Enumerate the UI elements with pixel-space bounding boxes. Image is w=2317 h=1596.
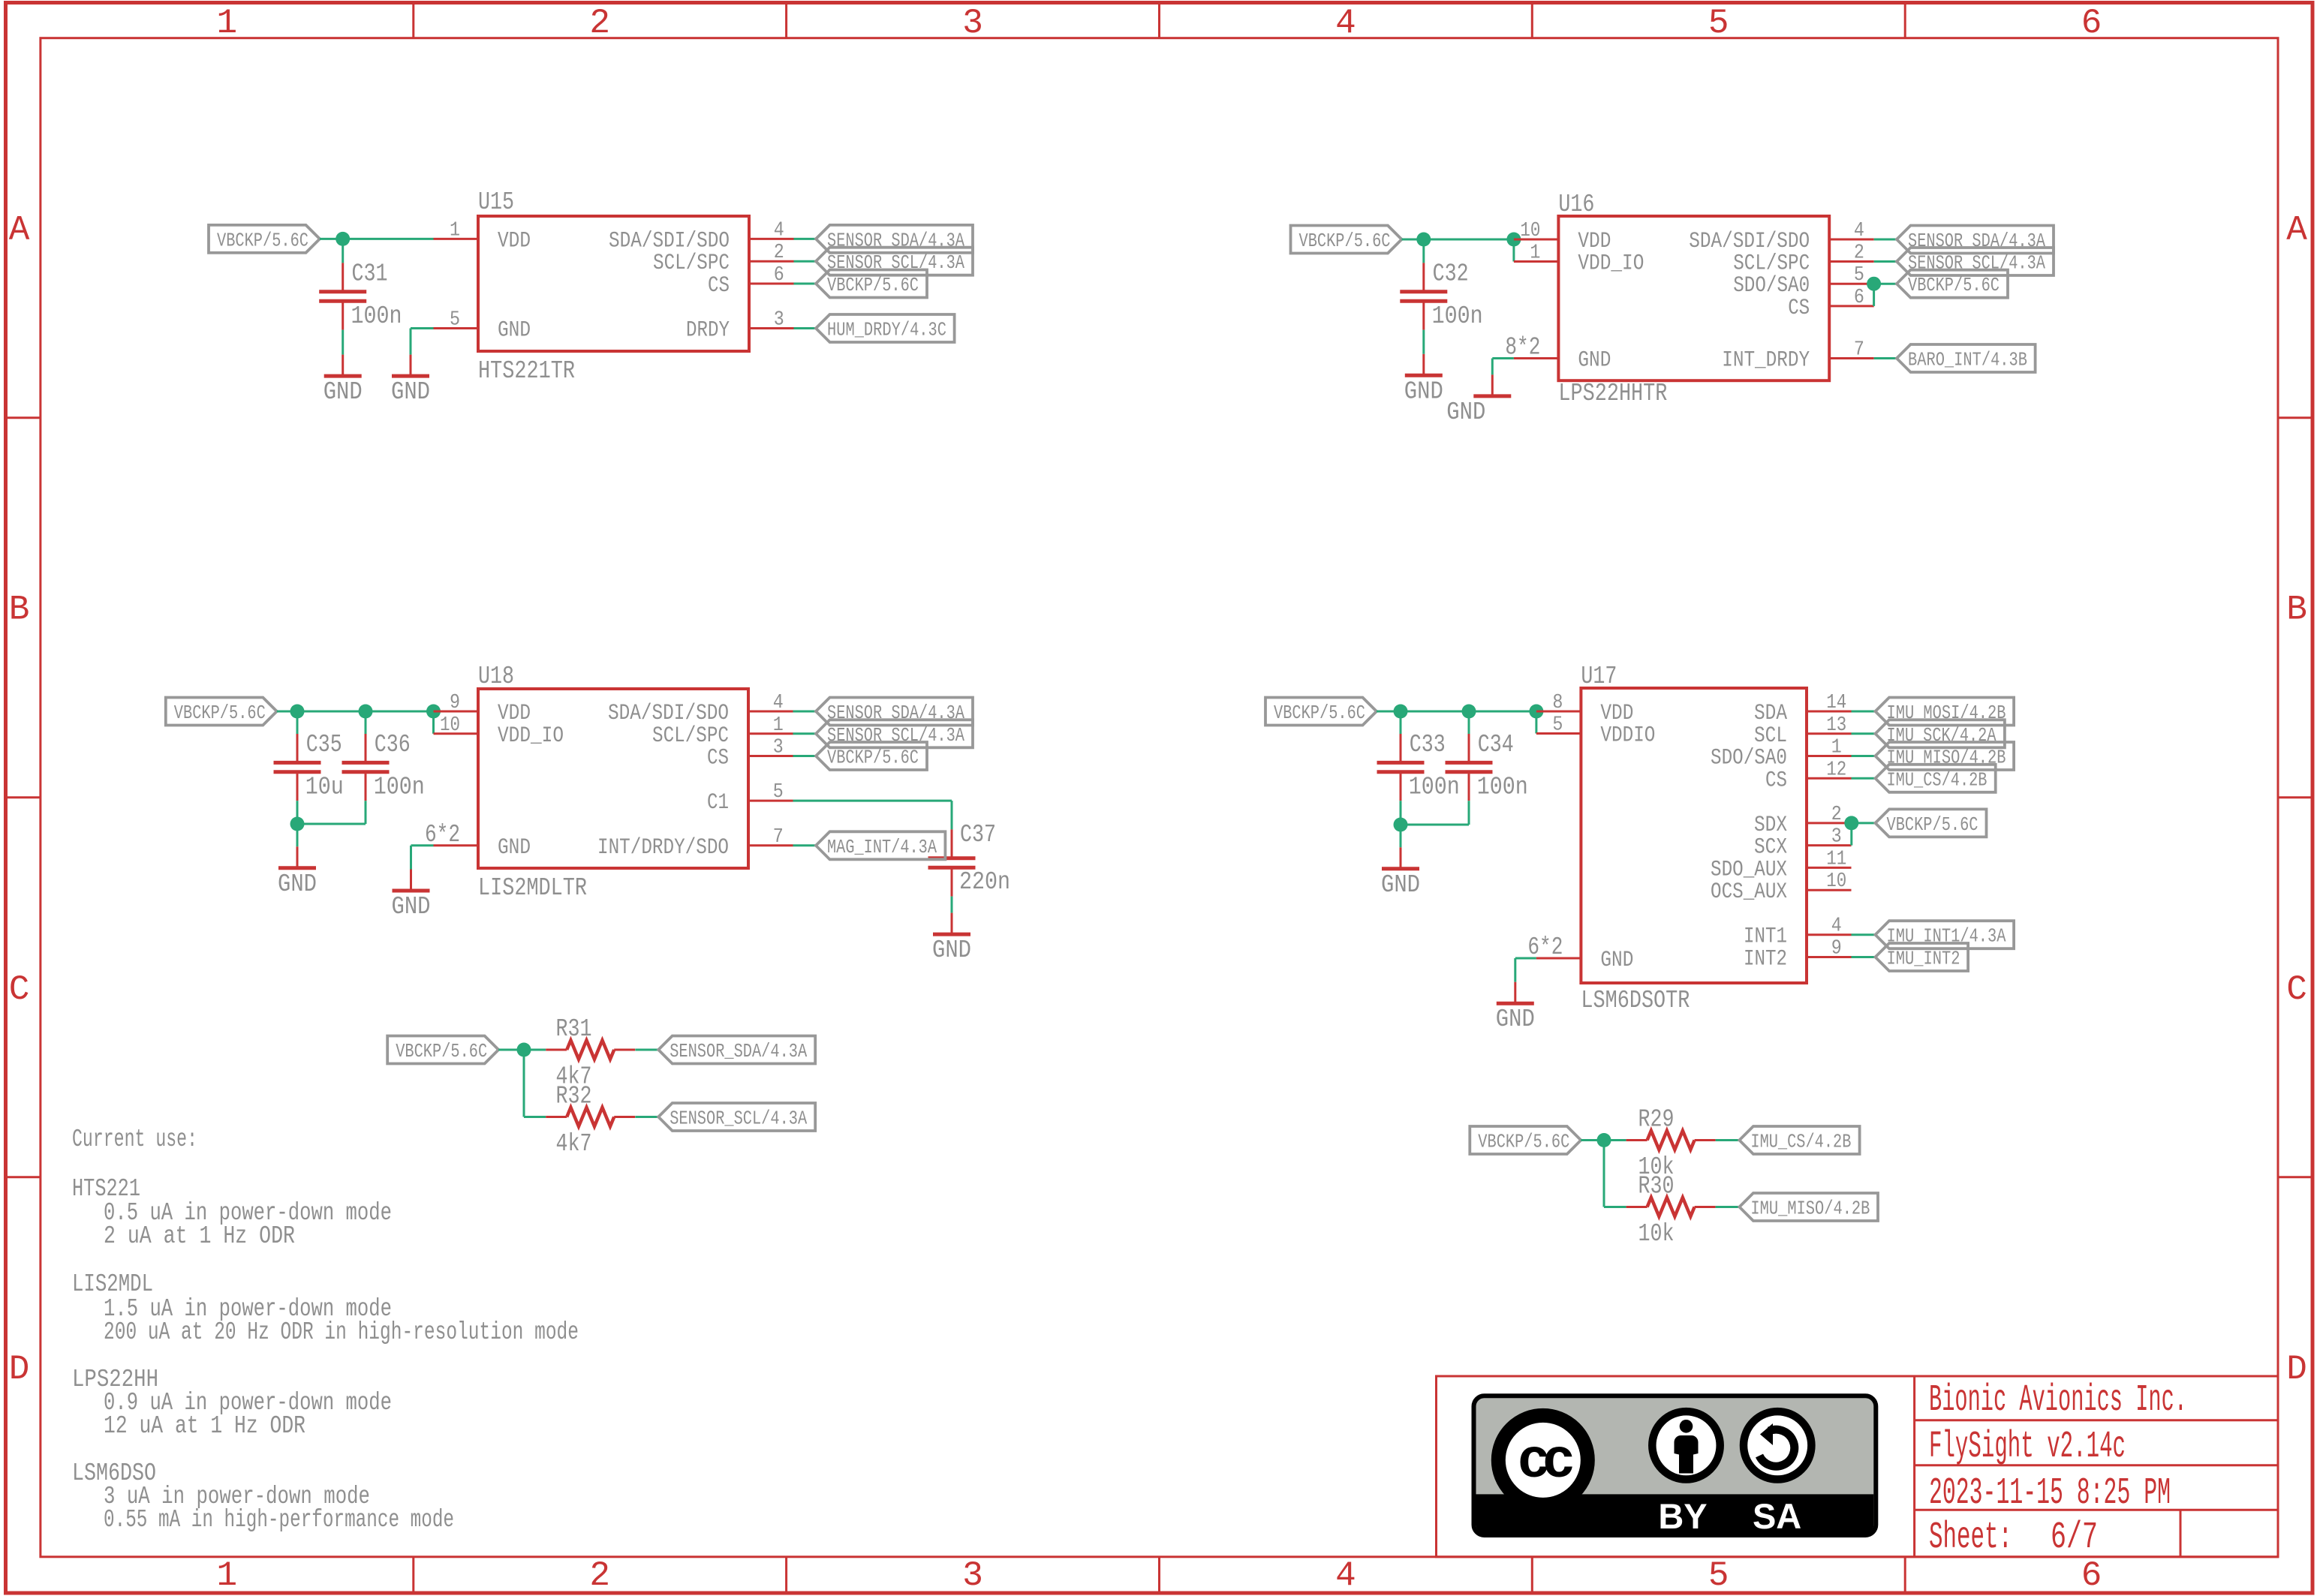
svg-text:10u: 10u: [305, 774, 344, 801]
net label IMU_INT1/4.3A: [1876, 921, 2015, 948]
net label IMU_MOSI/4.2B: [1876, 698, 2015, 726]
row tick left: [4, 1176, 41, 1178]
junction node VDD/VDD_IO branch U18: [426, 705, 441, 719]
svg-text:2023-11-15 8:25 PM: 2023-11-15 8:25 PM: [1929, 1472, 2171, 1515]
svg-text:CS: CS: [1765, 768, 1787, 793]
title block outline: [1437, 1376, 2279, 1557]
wire: [296, 801, 299, 824]
net label VBCKP/5.6C: [1265, 698, 1377, 726]
wire: [1852, 933, 1876, 936]
ground (C35/C36): [278, 846, 317, 898]
pin 3 of U17: [1807, 826, 1852, 849]
svg-text:D: D: [2286, 1350, 2307, 1389]
capacitor C34 (100n): [1446, 734, 1493, 801]
pin GND of U16: [1514, 357, 1558, 359]
wire: [793, 844, 817, 846]
wire: [794, 283, 817, 285]
pin 5 of U16: [1829, 264, 1874, 287]
svg-text:5: 5: [773, 781, 784, 804]
pin 5 of U18: [748, 781, 793, 804]
pin 9 of U18: [434, 692, 479, 714]
svg-text:C1: C1: [707, 790, 729, 816]
wire: [1874, 239, 1897, 241]
wire: [635, 1049, 658, 1051]
svg-text:LPS22HHTR: LPS22HHTR: [1558, 380, 1667, 407]
svg-text:VBCKP/5.6C: VBCKP/5.6C: [1299, 230, 1391, 252]
pin 4 of U15: [749, 219, 794, 242]
column tick bottom: [1158, 1557, 1160, 1591]
wire: [1377, 711, 1536, 713]
svg-text:12: 12: [1826, 759, 1846, 781]
column tick top: [1531, 4, 1533, 38]
svg-text:10: 10: [1520, 220, 1540, 242]
svg-text:6*2: 6*2: [1527, 933, 1563, 961]
svg-text:SENSOR_SCL/4.3A: SENSOR_SCL/4.3A: [670, 1108, 807, 1130]
junction node C33/C34 ground: [1394, 818, 1408, 832]
svg-text:6: 6: [2081, 4, 2102, 43]
svg-text:220n: 220n: [959, 868, 1010, 896]
svg-text:10k: 10k: [1638, 1220, 1675, 1248]
row tick right: [2278, 416, 2312, 419]
net label MAG_INT/4.3A: [816, 831, 945, 859]
svg-text:CS: CS: [708, 273, 730, 299]
pin 3 of U15: [749, 309, 794, 332]
svg-text:100n: 100n: [1409, 774, 1460, 801]
net label SENSOR_SDA/4.3A: [816, 225, 973, 253]
wire: [411, 844, 434, 846]
svg-text:VDD_IO: VDD_IO: [498, 723, 564, 749]
wire: [432, 711, 435, 734]
wire: [297, 823, 366, 825]
svg-text:B: B: [2286, 591, 2307, 630]
junction node VBCKP at C34: [1462, 705, 1476, 719]
wire: [1874, 260, 1897, 263]
wire: [342, 239, 344, 263]
svg-text:VBCKP/5.6C: VBCKP/5.6C: [1478, 1131, 1569, 1153]
svg-text:1: 1: [1831, 737, 1842, 759]
svg-text:4: 4: [1335, 1556, 1356, 1595]
svg-text:D: D: [9, 1350, 30, 1389]
pin 13 of U17: [1807, 714, 1852, 737]
svg-text:12 uA at 1 Hz ODR: 12 uA at 1 Hz ODR: [104, 1412, 305, 1440]
net label VBCKP/5.6C: [1291, 226, 1402, 254]
svg-text:VDDIO: VDDIO: [1600, 723, 1655, 749]
svg-text:8: 8: [1552, 692, 1563, 714]
svg-text:6: 6: [1854, 287, 1864, 309]
ground (C37): [932, 913, 971, 965]
IC U15 (HTS221TR) body: [478, 216, 749, 351]
svg-text:R30: R30: [1638, 1173, 1675, 1201]
wire: [320, 238, 434, 240]
junction node VBCKP at C31: [336, 232, 350, 246]
wire: [951, 897, 953, 913]
capacitor C31 (100n): [319, 263, 366, 329]
text note: current use summary: [72, 1126, 579, 1534]
net label VBCKP/5.6C: [1876, 809, 1987, 837]
wire: [523, 1050, 525, 1117]
svg-text:GND: GND: [391, 378, 430, 406]
net label VBCKP/5.6C: [387, 1036, 498, 1064]
resistor R32 (4k7): [546, 1108, 635, 1126]
svg-text:1: 1: [216, 4, 237, 43]
svg-text:C: C: [9, 970, 30, 1009]
pin GND of U18: [434, 844, 479, 846]
wire: [1716, 1206, 1740, 1208]
net label VBCKP/5.6C: [166, 698, 277, 726]
pin 7 of U16: [1829, 339, 1874, 362]
net label IMU_INT2: [1876, 943, 1969, 971]
wire: [524, 1116, 546, 1118]
junction node VBCKP at C32: [1416, 233, 1431, 247]
svg-text:GND: GND: [1404, 377, 1443, 405]
wire: [342, 330, 344, 355]
wire: [793, 755, 817, 757]
column tick bottom: [412, 1557, 414, 1591]
svg-text:C35: C35: [306, 731, 342, 759]
svg-text:5: 5: [1552, 714, 1563, 737]
pin 6 of U16: [1829, 287, 1874, 309]
svg-text:INT/DRDY/SDO: INT/DRDY/SDO: [597, 835, 729, 861]
svg-text:2: 2: [1831, 804, 1842, 826]
resistor R29 (10k): [1626, 1131, 1716, 1150]
wire: [1400, 711, 1402, 734]
svg-text:DRDY: DRDY: [686, 318, 730, 344]
capacitor C36 (100n): [342, 734, 390, 801]
net label SENSOR_SCL/4.3A: [816, 248, 973, 275]
wire: [1852, 777, 1876, 780]
pin 1 of U16: [1514, 242, 1558, 265]
svg-text:Bionic Avionics Inc.: Bionic Avionics Inc.: [1929, 1379, 2187, 1422]
column tick bottom: [785, 1557, 787, 1591]
svg-text:Sheet:: Sheet:: [1929, 1516, 2012, 1559]
wire: [1603, 1141, 1605, 1207]
svg-text:GND: GND: [1600, 948, 1633, 973]
svg-text:U17: U17: [1581, 663, 1617, 690]
net label VBCKP/5.6C: [1897, 270, 2008, 298]
svg-text:IMU_MISO/4.2B: IMU_MISO/4.2B: [1750, 1198, 1870, 1220]
svg-text:C36: C36: [375, 731, 411, 759]
svg-text:4: 4: [1831, 915, 1842, 938]
svg-text:GND: GND: [1496, 1005, 1535, 1033]
pin 3 of U18: [748, 737, 793, 759]
pin 9 of U17: [1807, 938, 1852, 960]
svg-text:3: 3: [774, 309, 784, 332]
svg-text:9: 9: [1831, 938, 1842, 960]
svg-text:IMU_CS/4.2B: IMU_CS/4.2B: [1887, 768, 1988, 791]
pin 11 of U17: [1807, 848, 1852, 870]
wire: [793, 732, 817, 735]
svg-text:3: 3: [1831, 826, 1842, 849]
wire: [1400, 801, 1402, 825]
pin 5 of U15: [434, 309, 479, 332]
wire: [794, 238, 817, 240]
column tick top: [785, 4, 787, 38]
pin 2 of U17: [1807, 804, 1852, 826]
wire: [1512, 239, 1515, 262]
svg-text:10: 10: [440, 714, 460, 737]
net label SENSOR_SDA/4.3A: [816, 698, 973, 726]
IC U16 (LPS22HHTR) body: [1558, 216, 1829, 380]
net label SENSOR_SDA/4.3A: [1897, 226, 2054, 254]
row tick right: [2278, 1176, 2312, 1178]
svg-text:C37: C37: [960, 821, 996, 849]
svg-text:VBCKP/5.6C: VBCKP/5.6C: [827, 747, 919, 769]
svg-text:C33: C33: [1410, 731, 1446, 759]
svg-text:1: 1: [1530, 242, 1540, 265]
svg-text:1: 1: [773, 714, 784, 737]
wire: [410, 846, 412, 870]
wire: [1874, 357, 1897, 359]
svg-text:6: 6: [774, 264, 784, 287]
ground (U18 GND pin): [392, 870, 431, 921]
pin GND of U17: [1536, 957, 1581, 960]
svg-text:GND: GND: [392, 893, 431, 921]
net label IMU_MISO/4.2B: [1739, 1193, 1878, 1221]
svg-text:R32: R32: [556, 1083, 592, 1111]
wire: [1873, 284, 1875, 306]
svg-text:10: 10: [1826, 870, 1846, 893]
svg-text:C31: C31: [352, 260, 388, 288]
svg-text:5: 5: [1708, 4, 1729, 43]
resistor R30 (10k): [1626, 1198, 1716, 1216]
svg-text:A: A: [2286, 211, 2307, 250]
svg-text:2: 2: [589, 1556, 610, 1595]
pin 5 of U17: [1536, 714, 1581, 737]
wire: [1468, 711, 1470, 734]
svg-text:4: 4: [1854, 220, 1864, 242]
wire: [296, 824, 299, 846]
wire: [1535, 711, 1537, 734]
wire: [794, 260, 817, 263]
column tick top: [1904, 4, 1906, 38]
svg-text:HTS221TR: HTS221TR: [478, 357, 575, 385]
ground (U17 GND pin): [1496, 982, 1535, 1034]
wire: [1852, 956, 1876, 958]
svg-text:0.55 mA in high-performance mo: 0.55 mA in high-performance mode: [104, 1506, 454, 1534]
row tick left: [4, 796, 41, 798]
wire: [411, 327, 434, 329]
ground (C32): [1404, 354, 1443, 406]
svg-text:VBCKP/5.6C: VBCKP/5.6C: [1887, 813, 1978, 836]
wire: [951, 801, 953, 829]
svg-text:U18: U18: [478, 663, 514, 690]
capacitor C37 (220n): [928, 829, 976, 896]
svg-text:INT_DRDY: INT_DRDY: [1722, 348, 1810, 374]
svg-text:3: 3: [773, 737, 784, 759]
junction node VBCKP at U17 SDX: [1844, 816, 1858, 830]
wire: [1874, 283, 1897, 285]
column tick bottom: [1531, 1557, 1533, 1591]
wire: [1492, 357, 1514, 359]
net label IMU_SCK/4.2A: [1876, 720, 2005, 747]
capacitor C32 (100n): [1400, 263, 1447, 329]
svg-text:100n: 100n: [1432, 302, 1483, 330]
junction node C35/C36 ground: [290, 817, 305, 831]
pin 1 of U15: [434, 219, 479, 242]
junction node VDD/VDD_IO branch: [1506, 233, 1521, 247]
svg-text:VBCKP/5.6C: VBCKP/5.6C: [217, 229, 308, 251]
pin 8 of U17: [1536, 692, 1581, 714]
wire: [1515, 957, 1536, 960]
svg-text:HUM_DRDY/4.3C: HUM_DRDY/4.3C: [827, 319, 946, 341]
net label SENSOR_SDA/4.3A: [658, 1036, 815, 1064]
svg-text:R29: R29: [1638, 1106, 1675, 1134]
net label IMU_CS/4.2B: [1876, 765, 1996, 792]
svg-text:1: 1: [216, 1556, 237, 1595]
svg-text:100n: 100n: [351, 302, 402, 330]
pin 1 of U17: [1807, 737, 1852, 759]
svg-text:VBCKP/5.6C: VBCKP/5.6C: [827, 274, 919, 296]
svg-text:INT2: INT2: [1744, 947, 1787, 972]
svg-text:8*2: 8*2: [1505, 334, 1540, 362]
pin 6 of U15: [749, 264, 794, 287]
wire: [1491, 359, 1494, 375]
svg-text:GND: GND: [323, 378, 363, 406]
svg-text:4: 4: [774, 219, 784, 242]
svg-text:U15: U15: [478, 188, 514, 216]
svg-text:11: 11: [1826, 848, 1846, 870]
wire: [410, 329, 412, 355]
svg-text:2: 2: [589, 4, 610, 43]
svg-text:R31: R31: [556, 1015, 592, 1043]
pin 7 of U18: [748, 826, 793, 849]
svg-text:7: 7: [773, 826, 784, 849]
svg-text:100n: 100n: [374, 774, 425, 801]
junction node VDD/VDDIO branch U17: [1529, 705, 1543, 719]
svg-text:VBCKP/5.6C: VBCKP/5.6C: [396, 1040, 487, 1062]
svg-text:C34: C34: [1478, 731, 1514, 759]
net label VBCKP/5.6C: [209, 225, 320, 253]
column tick top: [412, 4, 414, 38]
junction node VBCKP imu pullups: [1597, 1133, 1611, 1147]
pin 4 of U18: [748, 692, 793, 714]
net label VBCKP/5.6C: [816, 742, 927, 770]
wire: [1716, 1139, 1740, 1141]
column tick top: [1158, 4, 1160, 38]
svg-text:1: 1: [450, 219, 460, 242]
svg-text:5: 5: [1708, 1556, 1729, 1595]
pin 10 of U18: [434, 714, 479, 737]
svg-text:5: 5: [450, 309, 460, 332]
wire: [296, 711, 299, 734]
svg-text:B: B: [9, 591, 30, 630]
svg-text:BARO_INT/4.3B: BARO_INT/4.3B: [1908, 349, 2027, 371]
wire: [1581, 1139, 1626, 1141]
svg-text:14: 14: [1826, 692, 1846, 714]
svg-text:4: 4: [1335, 4, 1356, 43]
wire: [793, 711, 817, 713]
junction node VBCKP at C35: [290, 705, 305, 719]
svg-text:2 uA at 1 Hz ODR: 2 uA at 1 Hz ODR: [104, 1222, 295, 1250]
svg-text:4k7: 4k7: [556, 1130, 592, 1158]
resistor R31 (4k7): [546, 1040, 635, 1059]
net label VBCKP/5.6C: [1470, 1126, 1581, 1154]
svg-text:C32: C32: [1433, 260, 1469, 288]
svg-text:GND: GND: [932, 936, 971, 964]
svg-text:GND: GND: [498, 835, 531, 861]
wire: [1401, 824, 1469, 826]
svg-text:Current use:: Current use:: [72, 1126, 197, 1153]
CC BY-SA license badge: [1474, 1396, 1876, 1536]
svg-text:GND: GND: [1446, 398, 1485, 426]
IC U17 (LSM6DSOTR) body: [1581, 688, 1807, 983]
svg-text:VDD_IO: VDD_IO: [1578, 251, 1644, 277]
net label SENSOR_SCL/4.3A: [816, 720, 973, 747]
wire: [1850, 823, 1852, 846]
ground (U16 GND pin): [1446, 374, 1511, 426]
svg-text:6: 6: [2081, 1556, 2102, 1595]
svg-text:7: 7: [1854, 339, 1864, 362]
pin 2 of U15: [749, 242, 794, 264]
svg-text:MAG_INT/4.3A: MAG_INT/4.3A: [827, 836, 937, 858]
pin 10 of U17: [1807, 870, 1852, 893]
junction node VBCKP at C33: [1394, 705, 1408, 719]
svg-text:LIS2MDL: LIS2MDL: [72, 1270, 153, 1298]
svg-text:9: 9: [450, 692, 460, 714]
svg-text:3: 3: [962, 4, 983, 43]
net label IMU_CS/4.2B: [1739, 1126, 1859, 1154]
wire: [1852, 755, 1876, 757]
net label BARO_INT/4.3B: [1897, 344, 2036, 372]
svg-text:LSM6DSOTR: LSM6DSOTR: [1581, 987, 1690, 1014]
svg-text:GND: GND: [1381, 871, 1420, 899]
net label VBCKP/5.6C: [816, 270, 927, 298]
svg-text:LIS2MDLTR: LIS2MDLTR: [478, 874, 587, 902]
svg-text:6/7: 6/7: [2051, 1516, 2098, 1559]
svg-text:IMU_INT2: IMU_INT2: [1887, 948, 1960, 970]
wire: [277, 711, 434, 713]
svg-text:SA: SA: [1753, 1496, 1801, 1536]
svg-text:IMU_CS/4.2B: IMU_CS/4.2B: [1750, 1131, 1851, 1153]
net label HUM_DRDY/4.3C: [816, 314, 955, 342]
svg-text:5: 5: [1854, 264, 1864, 287]
wire: [1400, 825, 1402, 847]
svg-text:CS: CS: [707, 746, 729, 771]
row tick left: [4, 416, 41, 419]
ground (U15 GND pin): [391, 355, 430, 406]
svg-text:2: 2: [774, 242, 784, 264]
svg-text:FlySight v2.14c: FlySight v2.14c: [1929, 1426, 2126, 1468]
wire: [793, 800, 952, 802]
ground (C33/C34): [1381, 847, 1420, 899]
wire: [794, 327, 817, 329]
wire: [1604, 1206, 1626, 1208]
svg-text:6*2: 6*2: [425, 821, 460, 849]
wire: [1852, 732, 1876, 735]
pin 1 of U18: [748, 714, 793, 737]
svg-text:2: 2: [1854, 242, 1864, 265]
svg-text:BY: BY: [1658, 1496, 1707, 1536]
svg-text:VBCKP/5.6C: VBCKP/5.6C: [174, 702, 266, 724]
svg-text:A: A: [9, 211, 30, 250]
svg-text:4: 4: [773, 692, 784, 714]
svg-text:CS: CS: [1788, 296, 1810, 321]
svg-text:VBCKP/5.6C: VBCKP/5.6C: [1908, 274, 2000, 296]
svg-text:VDD: VDD: [498, 228, 531, 254]
svg-text:cc: cc: [1518, 1426, 1572, 1489]
svg-text:OCS_AUX: OCS_AUX: [1711, 879, 1787, 905]
junction node VBCKP at U16 SDO: [1867, 277, 1881, 291]
wire: [1402, 239, 1514, 241]
IC U18 (LIS2MDLTR) body: [478, 689, 748, 868]
pin 2 of U16: [1829, 242, 1874, 265]
svg-text:200 uA at 20 Hz ODR in high-re: 200 uA at 20 Hz ODR in high-resolution m…: [104, 1318, 579, 1346]
pin 12 of U17: [1807, 759, 1852, 781]
svg-text:U16: U16: [1558, 191, 1594, 218]
capacitor C33 (100n): [1377, 734, 1425, 801]
net label IMU_MISO/4.2B: [1876, 742, 2015, 770]
wire: [635, 1116, 658, 1118]
